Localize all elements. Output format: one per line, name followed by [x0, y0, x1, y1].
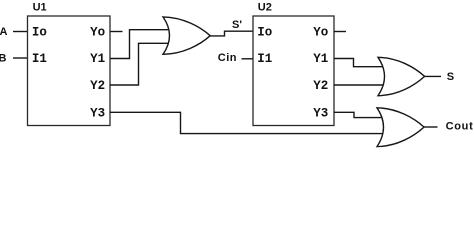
wire U1 Y2 to OR gate G1 bottom input — [110, 43, 170, 85]
svg-text:U2: U2 — [258, 2, 272, 14]
svg-text:A: A — [0, 26, 8, 38]
svg-text:S: S — [447, 71, 454, 83]
svg-text:Io: Io — [257, 26, 272, 40]
wire U2 Y2 to OR gate G2 bottom input — [334, 84, 385, 86]
or-gate G1 — [163, 17, 210, 54]
wire U1 Y0 stub (unconnected) — [110, 31, 123, 33]
svg-text:Y3: Y3 — [90, 106, 105, 120]
wire B input to U1 pin I1 — [13, 57, 28, 59]
svg-text:Io: Io — [32, 26, 47, 40]
svg-text:Yo: Yo — [313, 26, 328, 40]
or-gate G3 — [377, 108, 424, 147]
wire U2 Y1 to OR gate G2 top input — [334, 59, 385, 67]
svg-text:Y2: Y2 — [90, 79, 105, 93]
wire U1 Y3 to OR gate G3 bottom input — [110, 112, 384, 133]
wire A input to U1 pin I0 — [13, 31, 28, 33]
wire G3 output to Cout — [424, 126, 438, 128]
wire G1 output S' to U2 pin I0 — [210, 31, 253, 36]
wire U2 Y3 to OR gate G3 top input — [334, 112, 384, 117]
svg-text:Cin: Cin — [218, 52, 237, 64]
svg-text:I1: I1 — [257, 52, 272, 66]
decoder U2 — [253, 16, 334, 126]
svg-text:Y1: Y1 — [90, 52, 105, 66]
wire Cin input to U2 pin I1 — [242, 58, 254, 60]
svg-text:Y3: Y3 — [313, 106, 328, 120]
wire U1 Y1 to OR gate G1 top input — [110, 30, 170, 59]
svg-text:U1: U1 — [33, 2, 47, 14]
svg-text:Y2: Y2 — [313, 79, 328, 93]
svg-text:Y1: Y1 — [313, 52, 328, 66]
wire U2 Y0 stub (unconnected) — [334, 31, 346, 33]
svg-text:I1: I1 — [32, 52, 47, 66]
svg-text:S': S' — [232, 19, 242, 31]
decoder U1 — [28, 16, 111, 126]
svg-text:Cout: Cout — [446, 121, 474, 133]
or-gate G2 — [378, 57, 425, 95]
wire G2 output to S — [424, 75, 441, 77]
svg-text:B: B — [0, 52, 7, 64]
svg-text:Yo: Yo — [90, 26, 105, 40]
